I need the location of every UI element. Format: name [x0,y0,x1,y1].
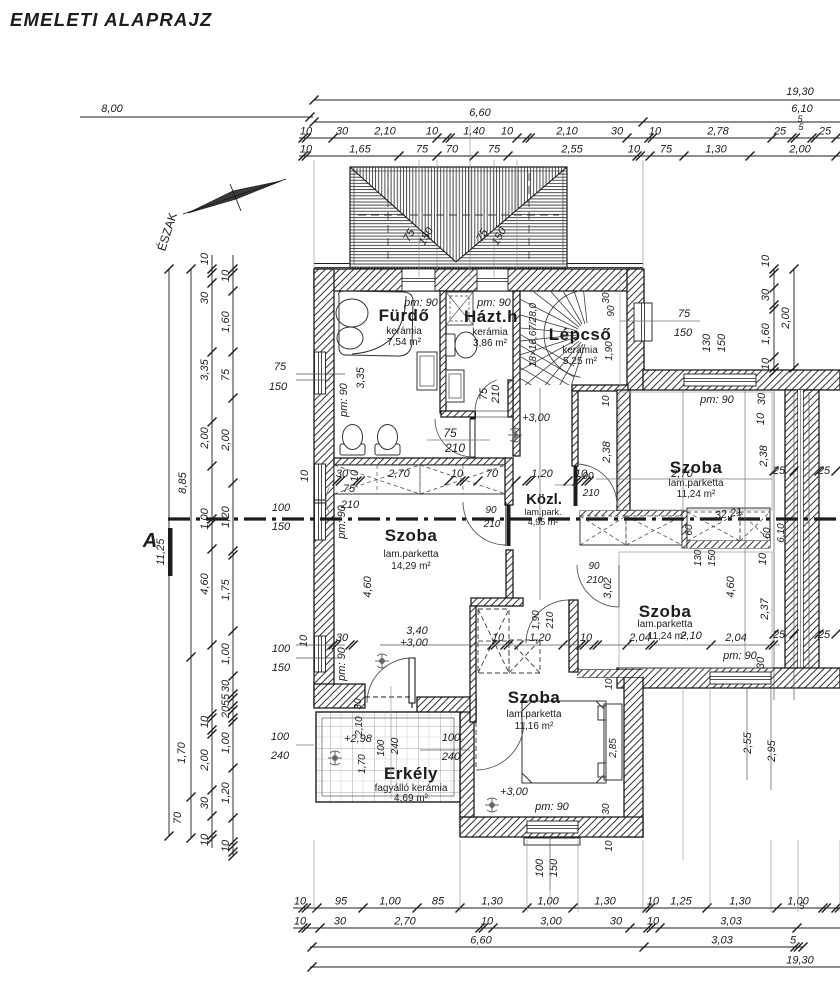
bathtub corner [336,291,413,356]
svg-text:30: 30 [755,656,767,669]
svg-text:100: 100 [442,732,461,744]
svg-text:2,95: 2,95 [766,739,778,762]
window room4 outer sill [524,838,580,845]
svg-text:75: 75 [274,361,287,373]
svg-text:4,60: 4,60 [725,575,737,597]
closet row at section east 2 [687,508,770,548]
svg-text:lam.parketta: lam.parketta [637,619,692,630]
bottom dim row 2 [293,927,840,929]
svg-text:30: 30 [760,288,772,301]
wall bathroom bottom / closet top [334,458,506,465]
wall below balcony door to room wall [417,697,476,722]
svg-text:Szoba: Szoba [385,526,438,545]
svg-text:10: 10 [601,395,612,407]
svg-text:2,70: 2,70 [393,916,416,928]
door Szoba2 to balcony [365,684,412,708]
svg-text:90: 90 [485,505,497,516]
svg-text:11,24 m²: 11,24 m² [677,489,716,500]
svg-text:95: 95 [335,896,348,908]
door szoba2 nook down [526,600,569,643]
door szoba4 entry [476,722,524,770]
svg-text:6,60: 6,60 [469,107,491,119]
svg-text:1,20: 1,20 [220,505,232,527]
svg-text:A: A [142,530,157,552]
svg-text:kerámia: kerámia [562,345,598,356]
svg-text:10: 10 [300,144,313,156]
ext line szoba3 [682,390,684,511]
svg-text:3,03: 3,03 [711,935,733,947]
svg-text:8,00: 8,00 [101,103,123,115]
svg-text:3,03: 3,03 [720,916,742,928]
svg-text:75: 75 [443,426,457,440]
dashed wardrobe szoba2 [478,609,509,673]
svg-text:25: 25 [818,126,832,138]
extension lines below wing [682,688,684,860]
wall room4 bottom [460,817,643,837]
extension lines top [313,160,315,269]
svg-text:4,60: 4,60 [362,575,374,597]
svg-text:lam.parketta: lam.parketta [668,478,723,489]
svg-text:1,75: 1,75 [220,578,232,600]
svg-text:55: 55 [220,693,232,706]
svg-text:+2,98: +2,98 [344,733,373,745]
svg-text:pm: 90: pm: 90 [338,382,350,418]
gap between party walls [798,390,803,671]
svg-text:30: 30 [601,803,612,815]
wall hazth bottom [441,411,475,417]
wall szoba2 east upper [506,550,513,606]
svg-text:2,37: 2,37 [759,597,771,620]
wall room4 right [624,677,643,837]
svg-text:1,90: 1,90 [604,341,615,361]
svg-text:2,00: 2,00 [788,144,811,156]
svg-text:10: 10 [757,552,769,565]
svg-text:240: 240 [270,750,290,762]
svg-text:EMELETI ALAPRAJZ: EMELETI ALAPRAJZ [10,9,213,30]
window wing top wall [684,374,756,386]
svg-text:1,00: 1,00 [537,896,559,908]
wall szoba3 nook vertical [569,600,578,672]
szoba3 inner face [619,392,772,510]
svg-text:25: 25 [817,629,831,641]
wall corridor east lower [617,390,630,511]
label 1,30/1,60/2,00 right top chains [773,268,775,371]
svg-text:Szoba: Szoba [508,688,561,707]
svg-text:19,30: 19,30 [786,955,814,967]
svg-text:Közl.: Közl. [526,491,562,508]
svg-text:pm: 90: pm: 90 [699,394,735,406]
svg-text:30: 30 [199,796,211,809]
extension lines left [250,268,314,270]
svg-text:75: 75 [660,144,673,156]
svg-text:10: 10 [451,468,464,480]
dim 6,60 / 6,10 row [314,121,840,123]
wall party A [785,390,798,671]
svg-text:2,10: 2,10 [555,126,578,138]
wall corridor east [572,391,578,466]
svg-text:10: 10 [760,254,772,267]
svg-text:2,00: 2,00 [780,306,792,329]
wall szoba2 south thin [471,598,523,606]
svg-text:150: 150 [269,381,288,393]
wall left exterior [314,269,334,706]
svg-text:100: 100 [272,643,291,655]
svg-text:1,00: 1,00 [379,896,401,908]
window top wall Hazt.h [477,269,508,291]
wall party B [803,390,819,671]
svg-text:30: 30 [220,679,232,692]
svg-text:2,55: 2,55 [742,731,754,754]
svg-text:Szoba: Szoba [670,458,723,477]
stairs lower flight diagonal treads [516,332,574,432]
wall stairs east [627,269,644,390]
eaves line left [314,263,350,265]
svg-text:3,86 m²: 3,86 m² [473,338,508,349]
ext line balcony door center [390,686,392,799]
wall stairs south thin [572,385,628,391]
svg-text:100: 100 [534,858,546,877]
svg-text:5: 5 [790,935,797,947]
door hazth arc [475,380,497,411]
wc Furdo 1 [340,425,365,456]
svg-text:4,60: 4,60 [199,572,211,594]
svg-text:1,30: 1,30 [594,896,616,908]
svg-text:100: 100 [271,731,290,743]
svg-text:1,65: 1,65 [349,144,371,156]
svg-text:10: 10 [604,840,615,852]
sink Hazt.h [446,370,464,402]
svg-text:pm: 90: pm: 90 [403,297,439,309]
svg-text:1,20: 1,20 [220,781,232,803]
window top wall Furdo [402,269,435,291]
svg-text:2,85: 2,85 [608,738,619,759]
svg-text:150: 150 [272,662,291,674]
svg-text:10: 10 [199,833,211,846]
svg-text:pm: 90: pm: 90 [336,646,348,682]
bed szoba4 [522,701,622,783]
svg-text:lam.parketta: lam.parketta [383,549,438,560]
svg-text:6,10: 6,10 [776,523,787,543]
dim row small top 2 [299,155,840,157]
svg-text:8,85: 8,85 [177,471,189,493]
svg-text:85: 85 [432,896,445,908]
svg-text:30: 30 [611,126,624,138]
svg-text:3,35: 3,35 [199,358,211,380]
svg-text:210: 210 [582,488,600,499]
svg-text:150: 150 [272,521,291,533]
svg-text:3,35: 3,35 [355,366,367,388]
svg-text:10: 10 [300,126,313,138]
svg-text:10: 10 [299,469,311,482]
svg-text:130: 130 [693,549,704,566]
window left wall 1 [315,352,326,394]
svg-text:2,04: 2,04 [628,632,650,644]
svg-text:1,90: 1,90 [531,610,542,630]
svg-text:1,20: 1,20 [531,468,553,480]
door Kozl to szoba3b east [577,565,619,607]
svg-text:2,00: 2,00 [220,428,232,451]
svg-text:1,30: 1,30 [729,896,751,908]
svg-text:10: 10 [604,678,615,690]
wall bottom-left corner [314,684,365,708]
stairs walk line [539,388,541,600]
svg-text:100: 100 [272,502,291,514]
svg-text:2,04: 2,04 [724,632,746,644]
left dim chain 4 [232,255,234,855]
dim row small top 1 [299,137,840,139]
section bar left [168,528,173,576]
svg-text:pm: 90: pm: 90 [476,297,512,309]
window stairs east wall [634,303,652,341]
wall top exterior [314,269,643,291]
svg-text:1,00: 1,00 [787,896,809,908]
svg-text:+3,00: +3,00 [400,637,429,649]
svg-text:2,10: 2,10 [679,630,702,642]
right vertical ext lines [773,390,775,700]
wall wing bottom [617,668,840,688]
wc Hazt.h [446,332,477,358]
svg-text:75: 75 [416,144,429,156]
svg-text:2,00: 2,00 [199,748,211,771]
svg-text:30: 30 [199,291,211,304]
szoba3 dim row line [596,478,772,480]
svg-text:lam.parketta: lam.parketta [506,709,561,720]
bottom dim row 1 [293,907,840,909]
dim 8,00 [80,116,313,118]
svg-text:30: 30 [610,916,623,928]
svg-text:1,70: 1,70 [357,754,368,774]
svg-text:1,60: 1,60 [760,322,772,344]
svg-text:kerámia: kerámia [472,327,508,338]
svg-text:18×16,67/28,0: 18×16,67/28,0 [528,302,539,367]
svg-text:7,54 m²: 7,54 m² [387,337,422,348]
svg-text:100: 100 [376,739,387,756]
svg-text:kerámia: kerámia [386,326,422,337]
svg-text:10: 10 [760,357,772,370]
svg-text:10: 10 [349,469,361,482]
left dim chain 3 [211,255,213,848]
svg-text:1,30: 1,30 [481,896,503,908]
dim 19,30 top [314,99,840,101]
roof valley lines [350,167,456,262]
svg-text:150: 150 [707,549,718,566]
svg-text:Lépcső: Lépcső [549,325,612,344]
left dim chain 8,85 [190,269,192,838]
svg-text:10: 10 [755,412,767,425]
drain symbols [508,428,522,442]
section line A-A [168,517,840,520]
misc extension lines [334,373,356,375]
roof dashed ridge [358,214,559,216]
window room4 bottom [527,821,578,833]
svg-text:2,70: 2,70 [387,468,410,480]
svg-text:10: 10 [199,252,211,265]
svg-text:pm: 90: pm: 90 [534,801,570,813]
svg-text:30: 30 [756,392,768,405]
svg-text:pm: 90: pm: 90 [722,650,758,662]
svg-text:4,69 m²: 4,69 m² [394,793,429,804]
kozl door leaf [507,505,511,546]
svg-text:25: 25 [772,629,786,641]
wall wing top [643,370,840,390]
mirror house inner face line [808,392,810,668]
washing machine Hazt.h dashed [446,292,473,325]
svg-text:ÉSZAK: ÉSZAK [154,211,180,253]
svg-text:6,60: 6,60 [470,935,492,947]
svg-text:75: 75 [678,308,691,320]
svg-text:lam.park.: lam.park. [524,507,561,517]
svg-text:30: 30 [353,698,364,710]
svg-text:+3,00: +3,00 [500,786,529,798]
svg-text:1,30: 1,30 [705,144,727,156]
svg-text:2,78: 2,78 [706,126,729,138]
svg-text:2,00: 2,00 [199,426,211,449]
insulation outline main building [314,267,643,271]
svg-text:30: 30 [334,916,347,928]
szoba3b inner face [619,552,772,668]
svg-text:3,40: 3,40 [406,625,428,637]
door hazth-stairhall opening [475,410,508,412]
svg-text:75: 75 [488,144,501,156]
balcony slab [316,712,460,802]
svg-text:70: 70 [172,811,184,824]
svg-text:240: 240 [441,751,461,763]
svg-text:11,16 m²: 11,16 m² [515,721,554,732]
closet row under bathroom [334,465,506,494]
wall room4 top thin [577,669,643,671]
stairs arc [544,290,582,377]
svg-text:60: 60 [684,524,695,536]
door Kozl to Szoba2 [463,502,506,545]
furdo door leaf [470,419,475,457]
extension lines bottom [313,840,315,912]
svg-text:210: 210 [545,611,556,629]
svg-text:210: 210 [340,499,360,511]
svg-text:70: 70 [486,468,499,480]
dashed wardrobe szoba4 top [509,640,540,673]
svg-text:1,70: 1,70 [176,741,188,763]
svg-text:10: 10 [426,126,439,138]
roof center valley hatch [350,167,567,262]
svg-text:10: 10 [501,126,514,138]
svg-text:70: 70 [446,144,459,156]
svg-text:90: 90 [606,305,617,317]
north arrow [188,181,281,213]
bottom dim row 4 19,30 [310,966,840,968]
svg-text:14,29 m²: 14,29 m² [391,561,431,572]
svg-text:75: 75 [478,387,490,400]
svg-text:3,02: 3,02 [602,577,614,598]
wall hazth-lepcso partition [513,291,520,456]
stairs treads fan [463,210,587,453]
closet row at section east 1 [580,511,682,545]
svg-text:240: 240 [390,737,401,755]
window left wall 2 [315,464,326,540]
wall furdo-hazth partition [440,291,446,413]
eaves line right [567,263,643,265]
furdo door jamb top [470,411,476,419]
door corridor east opening [576,464,617,505]
wall stub stairs west lower [508,380,513,417]
wall stub kozl west [505,458,513,505]
svg-text:30: 30 [336,632,349,644]
svg-text:75: 75 [220,368,232,381]
svg-text:210: 210 [483,519,501,530]
svg-text:150: 150 [674,327,693,339]
svg-text:75: 75 [343,483,356,495]
svg-text:+3,00: +3,00 [522,412,551,424]
svg-text:5,25 m²: 5,25 m² [563,356,598,367]
window wing bottom [710,672,771,684]
wall szoba2 west door jamb vertical [470,606,476,722]
svg-text:210: 210 [444,441,465,455]
svg-text:4,95 m²: 4,95 m² [528,517,559,527]
svg-text:2,10: 2,10 [373,126,396,138]
svg-text:1,20: 1,20 [529,632,551,644]
svg-text:1,00: 1,00 [220,642,232,664]
ext line stairs window [619,270,621,391]
svg-text:90: 90 [588,561,600,572]
svg-text:1,60: 1,60 [220,310,232,332]
svg-text:30: 30 [601,292,612,304]
svg-text:2,55: 2,55 [560,144,583,156]
furdo door arc [435,419,473,457]
vanity Furdo [417,352,437,390]
svg-text:30: 30 [336,126,349,138]
svg-text:60: 60 [762,527,773,539]
svg-text:10: 10 [575,468,588,480]
svg-text:3,00: 3,00 [540,916,562,928]
balcony drain [328,751,342,765]
svg-text:19,30: 19,30 [786,86,814,98]
roof outline [350,167,567,268]
svg-text:5: 5 [798,122,804,132]
bottom dim row 3 [310,946,803,948]
svg-text:130: 130 [701,333,713,352]
svg-text:Erkély: Erkély [384,764,438,783]
svg-text:1,00: 1,00 [220,731,232,753]
svg-text:2,38: 2,38 [758,444,770,467]
svg-text:Házt.h: Házt.h [464,307,518,326]
left dim chain 11,25 [168,269,170,836]
wc Furdo 2 (bidet) [375,425,400,456]
window left wall 3 [315,636,326,672]
svg-text:2,38: 2,38 [601,440,613,463]
svg-text:210: 210 [490,384,502,404]
wall room4 left [460,712,474,817]
svg-text:1,25: 1,25 [670,896,692,908]
svg-text:150: 150 [716,333,728,352]
svg-text:1,40: 1,40 [463,126,485,138]
